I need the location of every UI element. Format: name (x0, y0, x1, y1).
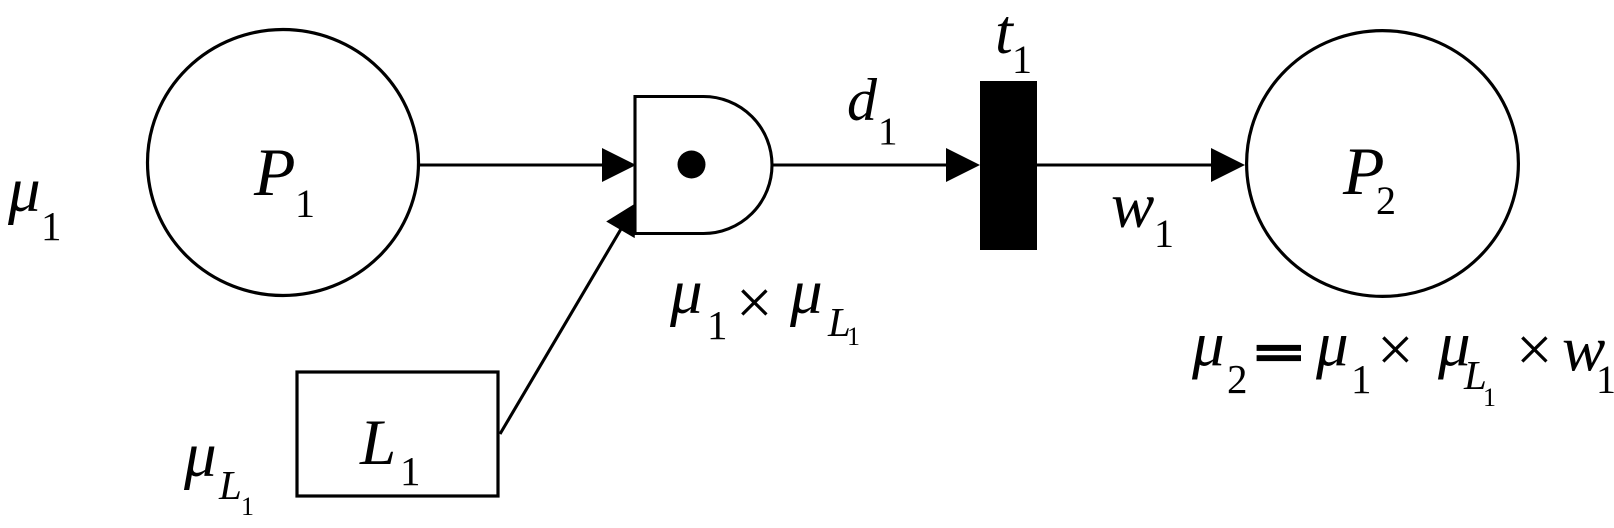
svg-text:1: 1 (1596, 357, 1614, 402)
svg-text:1: 1 (1483, 383, 1496, 412)
svg-text:μ: μ (1191, 309, 1225, 381)
svg-text:P: P (253, 134, 296, 210)
svg-text:1: 1 (241, 492, 254, 521)
svg-text:L: L (359, 407, 396, 479)
svg-text:1: 1 (878, 110, 898, 153)
svg-text:×: × (1377, 314, 1414, 386)
svg-text:1: 1 (1351, 356, 1372, 402)
svg-text:1: 1 (707, 302, 728, 348)
svg-text:×: × (1516, 314, 1553, 386)
svg-text:2: 2 (1227, 356, 1248, 402)
svg-text:w: w (1111, 170, 1154, 242)
svg-text:μ: μ (183, 419, 217, 491)
svg-text:1: 1 (400, 448, 421, 494)
svg-text:d: d (847, 67, 878, 133)
svg-text:μ: μ (789, 256, 823, 328)
svg-text:1: 1 (41, 203, 62, 249)
svg-text:2: 2 (1376, 178, 1396, 223)
svg-text:×: × (736, 267, 773, 339)
svg-text:μ: μ (669, 256, 703, 328)
svg-text:1: 1 (1154, 211, 1174, 256)
svg-text:μ: μ (1315, 309, 1349, 381)
svg-text:1: 1 (1012, 37, 1032, 82)
svg-text:μ: μ (7, 154, 41, 226)
svg-text:L: L (218, 462, 242, 508)
svg-text:1: 1 (847, 322, 860, 351)
svg-text:1: 1 (295, 181, 315, 226)
